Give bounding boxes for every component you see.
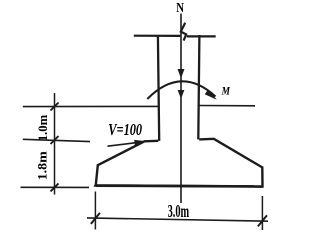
svg-text:3.0m: 3.0m [168,201,190,221]
footing bottom edge emphasis [96,184,263,188]
column right side [198,35,199,139]
break symbol squiggle [181,23,186,41]
moment arc [147,81,215,99]
svg-text:N: N [176,1,184,16]
ground level extension line (left) [23,105,159,107]
left dimension line [54,93,56,195]
footing outline [96,139,263,187]
arrowhead on N arrow (above moment arc) [178,69,185,78]
svg-text:1.8m: 1.8m [35,151,50,180]
ground level extension line (right) [199,105,255,107]
bottom extension line (left, below footing) [94,192,96,230]
svg-text:1.0m: 1.0m [35,115,50,142]
svg-text:M: M [221,86,231,98]
axial force arrow / centre line [180,14,182,204]
tick at top of 1.0m [51,103,59,111]
tick at left end of 3.0m [91,213,100,224]
tick between 1.0m and 1.8m [51,136,59,144]
footing-top extension line (left) [23,139,90,141]
tick at bottom of 1.8m [51,183,59,191]
shear arrowhead [134,140,146,146]
shear arrow shaft [108,143,137,147]
column cut line (top, right segment) [187,35,216,37]
footing-bottom extension line (left) [21,186,90,188]
bottom dimension line 3.0m [87,218,268,221]
arrowhead on N arrow (below moment arc) [178,90,185,99]
tick at right end of 3.0m [258,215,267,226]
column cut line (top, left segment) [134,35,181,37]
moment arc arrowhead [205,89,217,99]
svg-text:V=100: V=100 [108,120,142,139]
bottom extension line (right, below footing) [261,196,263,230]
column left side [158,35,159,141]
